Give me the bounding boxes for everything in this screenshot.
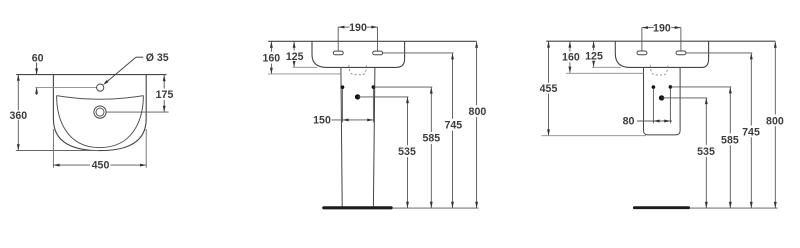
dimension 190 (middle) (338, 22, 377, 51)
extension line for 125 bottom (middle) (293, 66, 317, 68)
svg-text:80: 80 (623, 116, 635, 128)
semi-pedestal outline (644, 67, 681, 134)
fixing hole dot right (372, 85, 376, 89)
fixing dot left (right view) (652, 85, 656, 89)
faucet hole circle (97, 84, 104, 91)
svg-text:535: 535 (398, 146, 416, 158)
pedestal base plate (middle) (324, 206, 391, 209)
dimension 60 (top edge to hole centerline) (32, 52, 44, 95)
right faucet slot (right view) (676, 51, 686, 55)
label Ø35 with leader (103, 52, 169, 85)
basin outline (right view) (615, 41, 708, 67)
dimension 80 (623, 116, 672, 128)
svg-text:125: 125 (286, 51, 304, 63)
dimension 535 (right view) (697, 98, 715, 208)
pedestal left side (341, 67, 342, 206)
basin top edge line (middle view) (268, 40, 476, 42)
overflow hole leader line (106, 111, 169, 113)
overflow hole outer circle (94, 106, 106, 118)
svg-text:585: 585 (422, 133, 440, 145)
basin outline (middle view) (312, 41, 405, 67)
dimension 360 (basin depth) (9, 75, 27, 151)
left faucet slot (right view) (637, 51, 647, 55)
svg-text:455: 455 (540, 83, 558, 95)
dimension 535 (middle) (398, 97, 416, 208)
svg-text:160: 160 (262, 52, 280, 64)
dimension 175 (top edge to overflow) (156, 75, 174, 112)
dimension 190 (right view) (642, 22, 681, 50)
dimension 585 (middle) (422, 87, 440, 208)
basin outer outline (left view) (53, 75, 146, 151)
svg-text:190: 190 (653, 22, 671, 34)
svg-text:745: 745 (444, 120, 462, 132)
floor line (middle) (393, 207, 479, 209)
drain dot (right view) (659, 95, 664, 100)
dimension 160 (middle) (262, 42, 280, 74)
inner bowl outline (57, 96, 144, 148)
inner rim sag arc (57, 96, 144, 100)
dimension 455 (540, 41, 558, 135)
extension line for 160 bottom (middle) (268, 73, 341, 75)
svg-text:Ø 35: Ø 35 (146, 52, 169, 64)
svg-text:150: 150 (313, 114, 331, 126)
pedestal right side (373, 67, 375, 206)
svg-text:585: 585 (721, 134, 739, 146)
dimension 800 (middle) (469, 42, 487, 208)
fixing hole dot left (341, 85, 345, 89)
extension lines for 80 (652, 89, 654, 124)
dimension 800 (right view) (766, 42, 784, 209)
dimension 150 (313, 114, 374, 126)
faucet hole centerline (35, 87, 96, 89)
leader from drain dot to 535 (right view) (662, 97, 708, 99)
svg-text:450: 450 (92, 160, 110, 172)
extension line left edge x=53.4 (52, 129, 54, 168)
svg-text:360: 360 (9, 110, 27, 122)
extension line semi-pedestal bottom (542, 135, 647, 137)
dimension 125 (right view) (585, 41, 603, 67)
svg-text:60: 60 (32, 52, 44, 64)
extension line 125 bottom (right view) (592, 66, 621, 68)
overflow hole inner circle (96, 108, 104, 116)
basin top edge line (left view) (16, 74, 166, 76)
leader from right slot to 745 dim (383, 52, 454, 54)
extension line bottom of basin (16, 150, 99, 152)
hidden bowl dashed curve (middle) (349, 65, 367, 75)
fixing dot right (right view) (669, 85, 673, 89)
svg-text:800: 800 (469, 106, 487, 118)
svg-text:535: 535 (697, 146, 715, 158)
dimension 745 (right view) (742, 53, 760, 208)
hidden bowl dashed curve (right view) (650, 65, 668, 75)
leader from drain dot to 535 dim (358, 96, 409, 98)
extension lines for 150 (341, 89, 343, 122)
dimension 125 (middle) (286, 42, 304, 68)
floor thick line (right view) (634, 206, 688, 209)
svg-text:160: 160 (562, 51, 580, 63)
leader from right fixing dot to 585 dim (373, 86, 432, 88)
leader from right slot to 745 dim (right view) (686, 52, 752, 54)
floor thin line (right view) (690, 207, 777, 209)
svg-text:800: 800 (766, 115, 784, 127)
right faucet slot (373, 51, 383, 55)
left faucet slot (333, 51, 343, 55)
drain dot (middle) (355, 94, 360, 99)
extension line right edge x=146.2 (145, 129, 147, 168)
extension line 160 bottom (right view) (566, 72, 644, 74)
dimension 160 (right view) (562, 41, 580, 72)
leader from right fixing dot to 585 (right view) (670, 86, 731, 88)
svg-text:190: 190 (349, 22, 367, 34)
svg-text:125: 125 (585, 51, 603, 63)
svg-text:745: 745 (742, 126, 760, 138)
dimension 585 (right view) (721, 87, 739, 208)
dimension 745 (middle) (444, 53, 462, 208)
dimension 450 (basin width) (53, 160, 146, 172)
svg-text:175: 175 (156, 89, 174, 101)
basin top edge line (right view) (546, 40, 775, 42)
